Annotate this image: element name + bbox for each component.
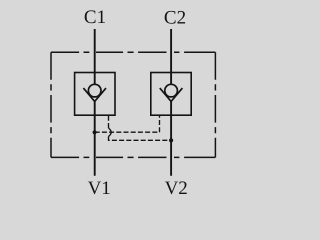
wire C1-V1 main line bbox=[94, 29, 96, 176]
pilot line crossover hop bbox=[109, 128, 112, 137]
check valve CV1 ball bbox=[88, 84, 101, 97]
svg-text:C2: C2 bbox=[164, 7, 186, 28]
check valve CV2 seat mask bbox=[160, 88, 183, 101]
pilot line from V1 side to CV2 (dashed) bbox=[95, 115, 160, 132]
check valve CV2 seat bbox=[160, 88, 183, 101]
wire C2-V2 main line bbox=[170, 29, 172, 176]
check valve CV1 body box bbox=[75, 73, 115, 116]
check valve CV1 seat bbox=[83, 88, 106, 101]
check valve CV2 body box bbox=[151, 73, 191, 116]
junction node on V2 line bbox=[169, 138, 173, 142]
pilot line from V2 side to CV1 (dashed) bbox=[109, 115, 172, 140]
check valve CV1 seat mask bbox=[83, 88, 106, 101]
svg-text:C1: C1 bbox=[84, 7, 106, 28]
check valve CV2 ball bbox=[165, 84, 178, 97]
svg-text:V2: V2 bbox=[165, 178, 188, 199]
junction node on V1 line bbox=[93, 130, 97, 134]
svg-text:V1: V1 bbox=[88, 178, 111, 199]
valve body enclosure (dash-dot boundary) bbox=[51, 52, 215, 157]
